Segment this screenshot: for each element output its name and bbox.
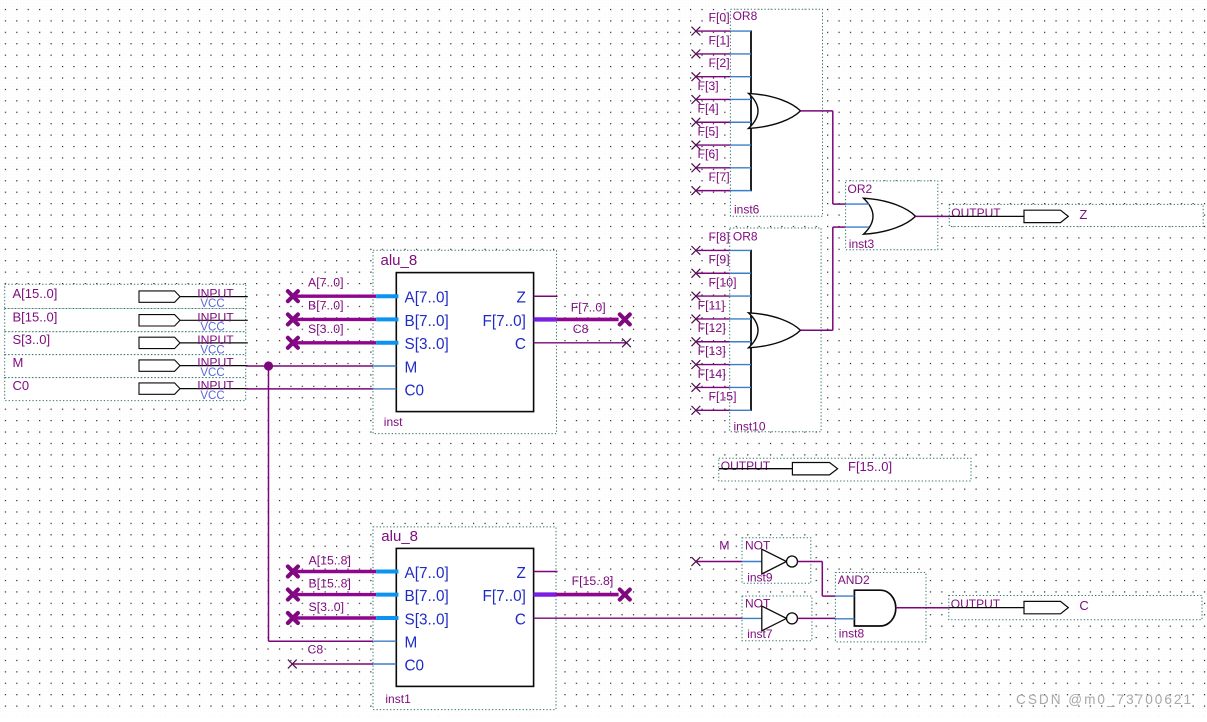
svg-text:F[5]: F[5]: [698, 124, 719, 138]
svg-text:C0: C0: [13, 378, 30, 393]
input F[15] of OR8 inst10: [692, 390, 752, 415]
svg-text:S[3..0]: S[3..0]: [13, 332, 51, 347]
svg-text:B[7..0]: B[7..0]: [405, 313, 449, 330]
input F[13] of OR8 inst10: [692, 344, 752, 369]
wire C8 from upper alu_8 C output: [534, 322, 631, 347]
input F[2] of OR8 inst6: [692, 56, 752, 81]
svg-text:S[3..0]: S[3..0]: [308, 322, 344, 336]
svg-text:Z: Z: [1079, 207, 1087, 222]
svg-text:B[7..0]: B[7..0]: [308, 299, 344, 313]
svg-text:OR8: OR8: [733, 229, 758, 243]
svg-text:C8: C8: [573, 322, 589, 336]
svg-text:F[7..0]: F[7..0]: [483, 313, 526, 330]
svg-text:M: M: [719, 539, 729, 553]
svg-text:F[0]: F[0]: [709, 11, 730, 25]
input F[14] of OR8 inst10: [692, 367, 752, 392]
wire M to NOT inst9: [692, 539, 743, 566]
svg-text:C: C: [1079, 598, 1088, 613]
svg-text:F[8]: F[8]: [709, 230, 730, 244]
svg-text:F[4]: F[4]: [698, 102, 719, 116]
stub M port lower alu_8: [373, 640, 396, 642]
svg-text:A[7..0]: A[7..0]: [308, 276, 344, 290]
input F[4] of OR8 inst6: [692, 102, 752, 127]
svg-text:F[13]: F[13]: [698, 344, 726, 358]
svg-text:inst9: inst9: [747, 570, 773, 584]
wire NOT inst7 output to AND2: [798, 617, 836, 619]
input pin M: [5, 355, 248, 379]
bus A[15..8] into lower alu_8: [288, 553, 399, 576]
stub input 1 AND2: [835, 595, 854, 597]
block upper alu_8 inst: [373, 250, 557, 433]
input pin B[15..0]: [5, 308, 248, 333]
svg-text:inst3: inst3: [849, 237, 875, 251]
svg-text:F[14]: F[14]: [698, 367, 726, 381]
bus S[3..0] into lower alu_8: [288, 600, 399, 623]
svg-text:inst10: inst10: [734, 420, 766, 434]
svg-text:F[12]: F[12]: [698, 321, 726, 335]
wire OR2 output to Z pin: [916, 215, 950, 217]
stub Z output upper alu_8: [534, 295, 558, 297]
svg-text:M: M: [405, 359, 418, 376]
gate OR2 inst3: [846, 181, 938, 251]
svg-text:alu_8: alu_8: [381, 252, 418, 269]
gate AND2 inst8: [835, 573, 926, 642]
svg-text:M: M: [405, 635, 418, 652]
wire AND2 output to C pin: [896, 607, 949, 609]
wire C from lower alu_8 to NOT inst7: [534, 617, 742, 619]
input pin A[15..0]: [5, 284, 248, 310]
svg-text:F[15..0]: F[15..0]: [848, 459, 892, 474]
svg-text:F[1]: F[1]: [709, 33, 730, 47]
bus A[7..0] into upper alu_8: [288, 276, 399, 302]
wire M pin to upper alu_8: [246, 365, 374, 367]
gate OR8 inst6: [730, 9, 822, 217]
svg-text:F[2]: F[2]: [709, 56, 730, 70]
svg-text:B[15..8]: B[15..8]: [309, 576, 351, 590]
svg-text:B[15..0]: B[15..0]: [13, 310, 58, 325]
svg-text:CSDN @m0_73700621: CSDN @m0_73700621: [1016, 692, 1193, 707]
svg-text:F[15..8]: F[15..8]: [572, 574, 614, 588]
svg-text:A[7..0]: A[7..0]: [405, 565, 449, 582]
svg-text:OUTPUT: OUTPUT: [721, 459, 771, 473]
svg-text:S[3..0]: S[3..0]: [405, 611, 449, 628]
output pin Z: [949, 204, 1203, 226]
svg-text:A[15..0]: A[15..0]: [13, 286, 58, 301]
svg-text:M: M: [13, 355, 24, 370]
stub C0 port upper alu_8: [373, 388, 396, 390]
svg-text:C: C: [515, 336, 526, 353]
svg-text:F[7..0]: F[7..0]: [483, 588, 526, 605]
svg-text:F[9]: F[9]: [709, 253, 730, 267]
wire M vertical to lower alu_8: [269, 366, 374, 641]
bus F[7..0] output upper alu_8: [534, 300, 630, 324]
svg-text:C: C: [515, 611, 526, 628]
wire OR8 inst10 output to OR2: [801, 227, 846, 330]
bus B[7..0] into upper alu_8: [288, 299, 399, 325]
svg-text:F[6]: F[6]: [698, 147, 719, 161]
svg-text:alu_8: alu_8: [381, 528, 418, 545]
input F[10] of OR8 inst10: [692, 275, 752, 300]
svg-text:OR8: OR8: [733, 9, 758, 23]
bus F[15..8] output lower alu_8: [534, 574, 630, 600]
stub input 2 AND2: [835, 618, 854, 620]
svg-text:inst6: inst6: [734, 203, 760, 217]
svg-text:F[10]: F[10]: [709, 275, 737, 289]
svg-text:C0: C0: [405, 657, 425, 674]
input F[12] of OR8 inst10: [692, 321, 752, 346]
svg-text:A[7..0]: A[7..0]: [405, 290, 449, 307]
wire C8 into lower alu_8 C0: [288, 643, 396, 669]
svg-text:S[3..0]: S[3..0]: [405, 336, 449, 353]
stub Z output lower alu_8: [534, 571, 558, 573]
output pin C: [949, 596, 1202, 620]
bus S[3..0] into upper alu_8: [288, 322, 399, 348]
wire NOT inst9 output to AND2: [798, 562, 836, 597]
svg-text:B[7..0]: B[7..0]: [405, 588, 449, 605]
input F[3] of OR8 inst6: [692, 79, 752, 104]
svg-text:OUTPUT: OUTPUT: [951, 597, 1001, 611]
svg-text:F[7..0]: F[7..0]: [571, 300, 606, 314]
block lower alu_8 inst1: [373, 527, 556, 710]
watermark CSDN: [1016, 692, 1193, 707]
input pin C0: [5, 378, 248, 402]
input F[1] of OR8 inst6: [692, 33, 752, 58]
output pin F[15..0]: [719, 458, 971, 481]
input F[11] of OR8 inst10: [692, 298, 752, 323]
bus B[15..8] into lower alu_8: [288, 576, 399, 599]
svg-text:OUTPUT: OUTPUT: [951, 206, 1001, 220]
svg-text:F[7]: F[7]: [709, 170, 730, 184]
input F[7] of OR8 inst6: [692, 170, 752, 195]
wire C0 pin to upper alu_8: [246, 388, 374, 390]
svg-text:F[11]: F[11]: [698, 298, 725, 312]
svg-text:S[3..0]: S[3..0]: [309, 600, 345, 614]
svg-text:inst: inst: [384, 415, 403, 429]
input F[6] of OR8 inst6: [692, 147, 752, 172]
svg-text:A[15..8]: A[15..8]: [309, 553, 351, 567]
stub input 2 OR2: [846, 226, 869, 228]
stub input 1 OR2: [846, 203, 869, 205]
input F[8] of OR8 inst10: [692, 230, 752, 255]
input F[5] of OR8 inst6: [692, 124, 752, 149]
input F[9] of OR8 inst10: [692, 253, 752, 278]
svg-text:Z: Z: [517, 290, 526, 307]
gate NOT inst7: [742, 596, 812, 641]
svg-text:VCC: VCC: [200, 390, 224, 402]
svg-text:F[15]: F[15]: [709, 390, 737, 404]
wire OR8 inst6 output to OR2: [801, 111, 846, 204]
svg-text:AND2: AND2: [838, 573, 870, 587]
svg-text:NOT: NOT: [745, 538, 771, 552]
input pin S[3..0]: [5, 332, 248, 357]
svg-text:inst7: inst7: [747, 627, 773, 641]
stub M port upper alu_8: [373, 365, 396, 367]
gate OR8 inst10: [730, 228, 821, 434]
junction M node: [264, 361, 273, 370]
svg-text:inst1: inst1: [385, 692, 411, 706]
input F[0] of OR8 inst6: [692, 11, 752, 36]
svg-text:C8: C8: [308, 643, 324, 657]
svg-text:C0: C0: [405, 382, 425, 399]
svg-text:F[3]: F[3]: [698, 79, 719, 93]
svg-text:OR2: OR2: [848, 182, 873, 196]
gate NOT inst9: [742, 538, 811, 585]
svg-text:Z: Z: [517, 565, 526, 582]
svg-text:inst8: inst8: [839, 627, 865, 641]
